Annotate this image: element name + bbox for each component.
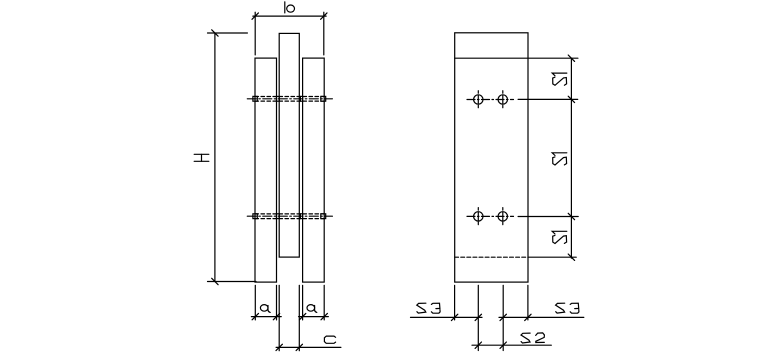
- dimension a left: label a: [260, 305, 270, 313]
- side view: top edge of outer plates + S1 extension: [455, 57, 578, 59]
- dimension b: label b: [285, 2, 295, 13]
- S3 tick 3: [500, 314, 506, 320]
- S3 dimension line left: [411, 316, 483, 318]
- row 1 vertical center line (left hole): [477, 91, 479, 109]
- S1 label 2 (rotated): [552, 153, 567, 165]
- dimension a right: dimension line: [299, 316, 329, 318]
- dimension a left: dimension line: [251, 316, 281, 318]
- S2 label: [521, 333, 544, 343]
- dimension a left: tick left: [252, 313, 258, 319]
- dimension c: label c: [324, 336, 335, 343]
- S3 tick 1: [451, 314, 457, 320]
- side view: hidden bottom edge of middle plate: [455, 256, 528, 258]
- S2 dimension line: [472, 344, 551, 346]
- dimension H: extension line top: [208, 32, 248, 34]
- row 1 horizontal center line: [467, 99, 514, 101]
- bolt row 2: hidden shank bottom: [255, 218, 324, 220]
- dimension H: extension line bottom: [208, 281, 257, 283]
- middle plate: [279, 33, 299, 257]
- S1 extension at bolt row 2: [518, 216, 578, 218]
- bolt row 2: right nut: [321, 214, 326, 219]
- dimension b: tick right: [321, 13, 327, 19]
- dimension a right: label a: [307, 305, 317, 313]
- S1 chain dimension line: [570, 58, 572, 258]
- bolt row 2: left nut: [253, 214, 257, 219]
- bolt row 2: shank in gap 1: [277, 214, 280, 219]
- bolt row 1: hidden shank top: [255, 96, 324, 98]
- dimension H: tick top: [212, 30, 218, 36]
- dimension H: tick bottom: [212, 278, 218, 284]
- bolt row 1: hidden shank bottom: [255, 100, 324, 102]
- S2 tick right: [500, 342, 506, 348]
- bolt row 2: center line: [247, 215, 332, 217]
- dimension c: tick right: [296, 344, 302, 350]
- S3 dimension line right: [499, 316, 584, 318]
- right plate: [303, 58, 325, 282]
- S3 tick 2: [475, 314, 481, 320]
- bolt row 2: hidden shank top: [255, 213, 324, 215]
- dimension c: dimension line: [276, 346, 341, 348]
- dimension a right: tick left: [299, 313, 305, 319]
- S3 label left: [417, 303, 440, 313]
- dimension c: extension line right: [298, 285, 300, 350]
- bolt row 1: left nut: [253, 96, 257, 101]
- S1 extension at middle plate bottom: [529, 256, 577, 258]
- dimension b: extension line right: [323, 12, 325, 55]
- row 2 vertical center line (right hole): [502, 208, 504, 226]
- bolt hole row 2 left circle: [474, 212, 483, 221]
- row 2 vertical center line (left hole): [477, 208, 479, 226]
- dimension c: extension line left: [278, 285, 280, 350]
- dimension b: tick left: [252, 13, 258, 19]
- a dimensions: extension lines below plates: [254, 285, 256, 320]
- bolt row 1: center line: [247, 98, 332, 100]
- S3 label right: [556, 303, 579, 313]
- dimension H: dimension line: [214, 33, 216, 282]
- bolt row 1: shank in gap 2: [300, 96, 302, 101]
- S1 tick at bolt row 2: [568, 213, 574, 219]
- dimension H: label H (rotated): [194, 154, 209, 161]
- S1 tick at top edge: [568, 55, 574, 61]
- row 2 horizontal center line: [467, 215, 514, 217]
- left plate: [255, 58, 277, 282]
- dimension a right: tick right: [321, 313, 327, 319]
- side view plate outline: [455, 33, 528, 282]
- bolt row 2: shank in gap 2: [300, 214, 302, 219]
- bolt hole row 2 right circle: [498, 212, 507, 221]
- S1 tick at middle plate bottom: [568, 254, 574, 260]
- dimension a left: tick right: [273, 313, 279, 319]
- S1 label 3 (rotated): [552, 231, 567, 243]
- S1 label 1 (rotated): [552, 73, 567, 85]
- dimension b: dimension line: [253, 15, 326, 17]
- S1 extension at bolt row 1: [518, 98, 578, 100]
- bolt row 1: right nut: [321, 96, 326, 101]
- row 1 vertical center line (right hole): [502, 91, 504, 109]
- S1 tick at bolt row 1: [568, 96, 574, 102]
- bolt hole row 1 right circle: [498, 95, 507, 104]
- bolt row 1: shank in gap 1: [277, 96, 280, 101]
- dimension b: extension line left: [254, 12, 256, 55]
- bolt hole row 1 left circle: [474, 95, 483, 104]
- extension lines below side view: [454, 285, 456, 320]
- dimension c: tick left: [276, 344, 282, 350]
- S2 tick left: [475, 342, 481, 348]
- S3 tick 4: [525, 314, 531, 320]
